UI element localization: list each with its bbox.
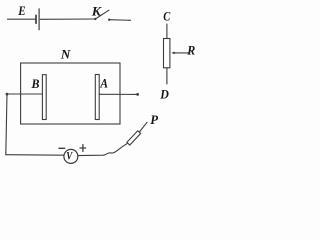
node: open terminal dot [136,93,139,96]
svg-text:C: C [163,9,170,24]
svg-text:P: P [150,112,159,127]
plate A [95,75,99,120]
svg-text:K: K [91,4,103,19]
svg-text:D: D [159,86,169,101]
wire: plate A lead [99,93,136,95]
arrow: rheostat wiper [171,52,189,55]
wire: battery to switch [40,18,95,20]
wire: C stub [166,24,168,39]
wire: left vertical rail [6,94,7,155]
node: corner junction [6,93,9,96]
probe P body [127,131,141,145]
wire: D stub [166,68,168,84]
plate B [42,75,46,120]
label minus sign [59,147,65,149]
svg-text:N: N [60,47,71,62]
wire: plate B lead [7,93,42,95]
svg-text:A: A [100,76,109,91]
wire: voltmeter to probe curve [78,143,128,155]
svg-text:E: E [17,3,26,18]
voltmeter V circle [64,149,78,163]
switch K [94,10,110,21]
wire: bottom to voltmeter [6,154,64,157]
svg-text:R: R [186,42,195,57]
resistor R [164,39,170,68]
svg-text:V: V [66,151,73,163]
svg-text:B: B [31,76,40,91]
probe P tip [139,122,147,132]
box N [21,63,120,124]
wire: switch to open end [109,19,130,22]
wire: battery left lead [8,18,36,20]
battery E [36,9,39,30]
label plus sign [80,145,86,152]
